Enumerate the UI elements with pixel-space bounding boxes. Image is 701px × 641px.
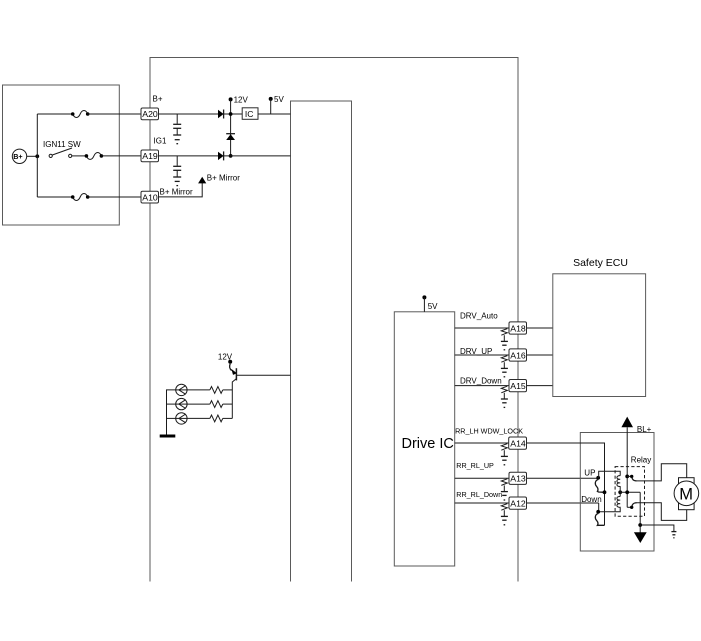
- wire Down coil feed: [598, 508, 620, 512]
- junction: [229, 154, 233, 158]
- wire A10 to mirror arrow: [159, 183, 203, 197]
- junction: [596, 510, 600, 514]
- svg-text:B+ Mirror: B+ Mirror: [160, 188, 193, 197]
- wire vertical bus in source box: [36, 114, 38, 197]
- connector A14: [509, 437, 527, 449]
- svg-text:12V: 12V: [234, 95, 249, 104]
- suppressor Z2 with ground: [501, 356, 508, 377]
- relay armature 1: [625, 475, 637, 481]
- wire: [167, 403, 176, 405]
- connector A12: [509, 497, 527, 509]
- suppressor Z5 with ground: [501, 479, 508, 500]
- wire resistor bus: [231, 390, 233, 419]
- connector A13: [509, 472, 527, 484]
- svg-text:A15: A15: [510, 381, 526, 391]
- ground: [160, 435, 176, 438]
- node 12V (illumination): [218, 352, 233, 364]
- junction: [229, 112, 233, 116]
- fuse F1: [71, 111, 90, 118]
- ground arrow: [634, 532, 647, 543]
- wire: [223, 389, 233, 391]
- lamp L2: [176, 398, 187, 409]
- wire mirror row to fuse: [37, 196, 72, 198]
- lamp L1: [176, 384, 187, 395]
- svg-text:RR_LH WDW_LOCK: RR_LH WDW_LOCK: [455, 427, 523, 436]
- node BL+: [621, 417, 651, 434]
- svg-text:Down: Down: [581, 495, 601, 504]
- wire B+ to junction: [27, 155, 38, 157]
- svg-text:5V: 5V: [428, 302, 438, 311]
- connector A19: [141, 150, 159, 162]
- wire RR_RL_UP row: [455, 461, 599, 478]
- diode D2: [226, 134, 235, 140]
- svg-text:A18: A18: [510, 323, 526, 333]
- wire UP coil feed: [598, 471, 620, 478]
- connector A10: [141, 191, 159, 203]
- relay coil K2: [617, 496, 620, 507]
- wire: [187, 403, 210, 405]
- svg-text:Safety ECU: Safety ECU: [573, 257, 628, 269]
- wire A20 to diode D1: [159, 113, 219, 115]
- wire 5V stub: [270, 99, 272, 114]
- Safety ECU: [553, 257, 646, 397]
- wire BL+ rail: [626, 427, 628, 507]
- capacitor C2 with ground: [173, 156, 181, 186]
- diode D1: [218, 110, 224, 119]
- node B+ Mirror arrow: [198, 174, 240, 184]
- junction: [596, 476, 600, 480]
- svg-text:A19: A19: [142, 151, 158, 161]
- wire D1 to junction: [224, 113, 243, 115]
- svg-text:UP: UP: [584, 468, 595, 477]
- junction: [625, 490, 629, 494]
- diode D3: [218, 151, 224, 160]
- wire armature1 to motor: [637, 464, 687, 481]
- wire IC to block: [258, 113, 291, 115]
- relay armature 2: [627, 503, 637, 509]
- transistor Q1: [230, 364, 237, 390]
- wire: [187, 417, 210, 419]
- svg-text:A20: A20: [142, 109, 158, 119]
- fuse F2: [85, 152, 104, 159]
- power source box: [3, 85, 120, 225]
- wire switch to fuse: [72, 155, 87, 157]
- svg-text:A14: A14: [510, 439, 526, 449]
- fuse F3: [71, 194, 90, 201]
- svg-text:A10: A10: [142, 192, 158, 202]
- contact UP (lock switch): [595, 480, 604, 493]
- resistor R1: [210, 387, 223, 394]
- wire A19 to diode D3: [159, 155, 219, 157]
- svg-text:IC: IC: [245, 109, 254, 119]
- wire fuse to A19: [101, 155, 141, 157]
- wire D3 to IC block: [224, 155, 291, 157]
- svg-text:IG1: IG1: [154, 137, 167, 146]
- connector A15: [509, 380, 527, 392]
- suppressor Z6 with ground: [501, 504, 508, 525]
- svg-text:B+: B+: [13, 152, 22, 161]
- svg-text:A16: A16: [510, 350, 526, 360]
- node 5V (drive): [422, 295, 438, 311]
- svg-text:RR_RL_Down: RR_RL_Down: [456, 490, 502, 499]
- svg-text:Drive IC: Drive IC: [402, 436, 454, 452]
- junction: [35, 154, 39, 158]
- suppressor Z3 with ground: [501, 386, 508, 407]
- junction: [603, 490, 607, 494]
- main module box (open bottom): [150, 58, 518, 582]
- wire armature2 to motor: [637, 503, 687, 521]
- wire mid junction across: [620, 491, 640, 493]
- suppressor Z4 with ground: [501, 444, 508, 465]
- wire lamp ground bus: [167, 390, 176, 435]
- resistor R2: [210, 401, 223, 408]
- contact Down (lock switch): [595, 514, 604, 526]
- node 12V: [229, 95, 249, 104]
- junction: [618, 490, 622, 494]
- wire RR_RL_Down row: [455, 490, 599, 503]
- svg-text:DRV_Down: DRV_Down: [460, 377, 502, 386]
- svg-text:B+ Mirror: B+ Mirror: [207, 174, 240, 183]
- wire A12 down link: [598, 503, 600, 512]
- wire: [187, 389, 210, 391]
- regulator IC: [242, 108, 258, 120]
- wire 12V rail: [230, 99, 232, 155]
- svg-text:DRV_Auto: DRV_Auto: [460, 311, 498, 320]
- node B+: [12, 149, 26, 163]
- wire A14 lock line: [527, 443, 605, 525]
- wire: [223, 417, 233, 419]
- svg-text:DRV_UP: DRV_UP: [460, 347, 492, 356]
- connector A18: [509, 322, 527, 334]
- svg-text:RR_RL_UP: RR_RL_UP: [456, 461, 494, 470]
- inner IC block box (open bottom): [291, 101, 352, 582]
- node 5V: [269, 95, 285, 104]
- Drive IC U1: [394, 312, 454, 566]
- motor M: [674, 478, 699, 510]
- wire: [223, 403, 233, 405]
- svg-text:B+: B+: [153, 95, 163, 104]
- wire Q1 to block: [236, 374, 290, 376]
- svg-text:Relay: Relay: [631, 456, 651, 465]
- wire to chassis ground: [640, 525, 674, 531]
- svg-text:5V: 5V: [274, 95, 284, 104]
- wire fuse to A10: [88, 196, 141, 198]
- wire DRV_Auto row: [455, 311, 553, 328]
- wire fuse to A20: [88, 113, 141, 115]
- svg-text:A12: A12: [510, 499, 526, 509]
- junction: [638, 523, 642, 527]
- chassis ground: [671, 532, 676, 538]
- wire 5V stub: [423, 297, 425, 311]
- wire DRV_Down row: [455, 377, 553, 386]
- resistor R3: [210, 415, 223, 422]
- wire coil mid to BL+: [619, 487, 621, 497]
- suppressor Z1 with ground: [501, 329, 508, 350]
- switch IGN11 SW: [43, 140, 81, 157]
- wire RR_LH WDW_LOCK row: [455, 427, 605, 444]
- wire B+ row to fuse: [37, 113, 72, 115]
- relay coil K1: [617, 476, 620, 487]
- wire: [167, 417, 176, 419]
- capacitor C1 with ground: [173, 114, 181, 144]
- connector A20: [141, 108, 159, 120]
- connector A16: [509, 349, 527, 361]
- svg-text:A13: A13: [510, 474, 526, 484]
- wire DRV_UP row: [455, 347, 553, 356]
- wire relay ground drop: [639, 492, 641, 532]
- svg-text:M: M: [679, 486, 693, 504]
- svg-text:IGN11 SW: IGN11 SW: [43, 140, 81, 149]
- relay coil dashed box: [615, 467, 644, 517]
- lamp L3: [176, 413, 187, 424]
- relay box: [580, 433, 654, 552]
